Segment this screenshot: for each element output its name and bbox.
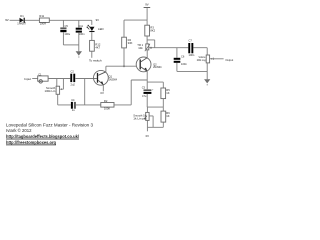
wire volume top stem: [206, 48, 208, 55]
svg-text:1K: 1K: [166, 91, 169, 95]
wire R6 riser: [162, 107, 164, 111]
wire rail corner down to LED: [91, 20, 93, 25]
svg-text:1K: 1K: [166, 114, 169, 118]
svg-text:C11: C11: [78, 24, 83, 28]
wire R4 bottom stem: [123, 48, 125, 66]
svg-text:100n: 100n: [79, 32, 85, 36]
wire volume wiper to output: [213, 58, 223, 60]
trimmer TR1: [137, 43, 150, 51]
capacitor C5: [60, 24, 70, 36]
svg-text:100u: 100u: [64, 32, 70, 36]
wire Q1 collector to Q2 base: [106, 65, 136, 67]
wire C6 ground run: [177, 70, 207, 72]
wire 0V stem: [146, 127, 148, 131]
wire R5 riser: [162, 82, 164, 88]
power flag 9V top center: [144, 3, 151, 8]
wire flag stem: [146, 8, 148, 20]
capacitor C2: [70, 69, 75, 86]
ground output: [204, 79, 210, 85]
svg-text:8K2: 8K2: [150, 29, 155, 33]
svg-text:100k Log: 100k Log: [197, 58, 206, 62]
junction output: [150, 47, 152, 49]
svg-text:R11: R11: [39, 14, 44, 18]
wire Q2 emitter stem: [146, 71, 148, 82]
svg-text:C6: C6: [181, 54, 185, 58]
node 0V Q1 emitter: [100, 91, 104, 95]
wire P2 wiper: [149, 116, 153, 127]
svg-text:Output: Output: [225, 58, 233, 62]
wire LED to R12: [91, 32, 93, 40]
capacitor C1: [38, 72, 48, 83]
wire feedback to Q2 emitter: [131, 79, 147, 81]
resistor R12: [90, 40, 101, 51]
wire R3 bottom jog: [147, 36, 155, 48]
wire C11 bottom stem: [78, 33, 80, 45]
svg-text:To switch: To switch: [89, 59, 102, 63]
wire P1 top stem: [56, 79, 58, 87]
capacitor C4: [71, 98, 76, 112]
svg-text:4K7: 4K7: [95, 45, 100, 49]
resistor R4: [122, 37, 133, 48]
wire 9V to D1: [10, 19, 20, 21]
svg-text:2u2: 2u2: [71, 82, 76, 86]
svg-text:http://freestompboxes.org: http://freestompboxes.org: [6, 140, 56, 145]
resistor R11: [39, 14, 49, 26]
wire P1 wiper riser: [62, 79, 64, 90]
wire C11 top stem: [78, 20, 80, 27]
svg-text:33K: 33K: [128, 41, 133, 45]
capacitor C6: [174, 54, 188, 65]
potentiometer P1: [45, 86, 62, 94]
wire west branch: [124, 19, 147, 21]
wire TR1 to Q2 collector: [146, 50, 148, 58]
wire D1 to R11: [25, 19, 40, 21]
wire R4 top stem: [123, 20, 125, 37]
wire P1 bottom stem: [57, 94, 59, 105]
wire R2 east to riser: [114, 104, 131, 106]
svg-text:C3: C3: [142, 86, 146, 90]
wire C6 stem: [176, 48, 178, 72]
wire C5 top stem: [62, 20, 64, 27]
potentiometer P2: [133, 112, 149, 120]
node 9V supply label left: [5, 18, 9, 22]
wire R5 bottom: [162, 99, 164, 108]
node Input label: [24, 77, 31, 81]
title text block: [6, 122, 93, 145]
svg-text:9V: 9V: [5, 18, 9, 22]
wire emitter row2 bottom: [147, 126, 163, 128]
node To switch label: [89, 59, 102, 63]
svg-text:0V: 0V: [100, 91, 104, 95]
wire volume bottom stem: [206, 63, 208, 79]
resistor R5: [161, 88, 170, 99]
wire filter caps bottom: [63, 44, 78, 46]
svg-text:47u: 47u: [142, 94, 147, 98]
svg-text:9V: 9V: [145, 3, 149, 7]
wire base junction riser: [84, 79, 86, 105]
svg-text:R2: R2: [104, 99, 108, 103]
svg-text:2N3904: 2N3904: [109, 78, 118, 82]
svg-text:9V: 9V: [96, 18, 100, 22]
capacitor C7: [188, 38, 195, 57]
svg-text:LED: LED: [98, 27, 104, 31]
potentiometer Volume: [197, 55, 214, 63]
LED: [87, 25, 104, 31]
svg-text:2N3904: 2N3904: [153, 65, 162, 69]
wire Q1 emitter stem: [102, 85, 104, 92]
ground filter caps: [76, 45, 82, 58]
svg-text:D1: D1: [20, 14, 24, 18]
wire input: [32, 78, 38, 80]
node 0V label: [146, 134, 150, 138]
wire C1 to C2: [48, 78, 70, 80]
svg-text:C1: C1: [38, 72, 42, 76]
wire feedback riser: [130, 80, 132, 105]
wire feedback run west: [58, 104, 101, 106]
svg-text:1k Lin pot: 1k Lin pot: [133, 116, 146, 120]
junction R4 base: [123, 65, 125, 67]
wire emitter east: [147, 81, 163, 83]
svg-text:Lovepedal Silicon Fuzz Master: Lovepedal Silicon Fuzz Master - Revision…: [6, 122, 93, 127]
resistor R2: [101, 99, 114, 111]
svg-text:+: +: [152, 88, 154, 91]
svg-text:C4: C4: [71, 98, 75, 102]
transistor Q1: [94, 70, 118, 85]
wire P2 bottom stem: [146, 120, 148, 127]
svg-text:C5: C5: [65, 24, 69, 28]
svg-text:100n: 100n: [181, 62, 187, 66]
transistor Q2: [136, 57, 162, 72]
svg-text:0V: 0V: [146, 134, 150, 138]
svg-text:Input: Input: [24, 77, 31, 81]
diode D1: [17, 14, 26, 26]
wire C2 to Q1 base: [75, 78, 97, 80]
wire C3 top stem: [146, 82, 148, 89]
wire output line: [149, 47, 207, 49]
node 9V label at LED: [96, 18, 100, 22]
wire P2 top stem: [146, 107, 148, 112]
svg-text:C7: C7: [189, 38, 193, 42]
svg-text:1N4007: 1N4007: [17, 22, 26, 26]
svg-text:100K: 100K: [104, 107, 110, 111]
resistor R3: [145, 25, 156, 36]
wire C5 bottom stem: [62, 32, 64, 45]
svg-text:http://tagboardeffects.blogspo: http://tagboardeffects.blogspot.co.uk/: [6, 134, 80, 139]
svg-text:10k: 10k: [138, 46, 143, 50]
svg-text:100R: 100R: [40, 22, 46, 26]
wire R12 to switch: [91, 51, 93, 58]
resistor R6: [161, 111, 170, 122]
wire R6 bottom: [162, 122, 164, 127]
svg-text:IvIark © 2012: IvIark © 2012: [6, 127, 32, 133]
svg-text:100k Lin: 100k Lin: [45, 89, 56, 93]
wire Q1 collector riser: [105, 66, 107, 72]
wire emitter row1 bottom: [147, 106, 163, 108]
capacitor C11: [76, 24, 85, 36]
svg-text:C2: C2: [71, 69, 75, 73]
wire C3 bottom stem: [146, 94, 148, 107]
wire R3 top stem: [146, 20, 148, 25]
node Output label: [225, 58, 233, 62]
capacitor C3: [142, 86, 154, 98]
wire R11 east rail: [49, 19, 92, 21]
svg-text:100n: 100n: [189, 53, 195, 57]
